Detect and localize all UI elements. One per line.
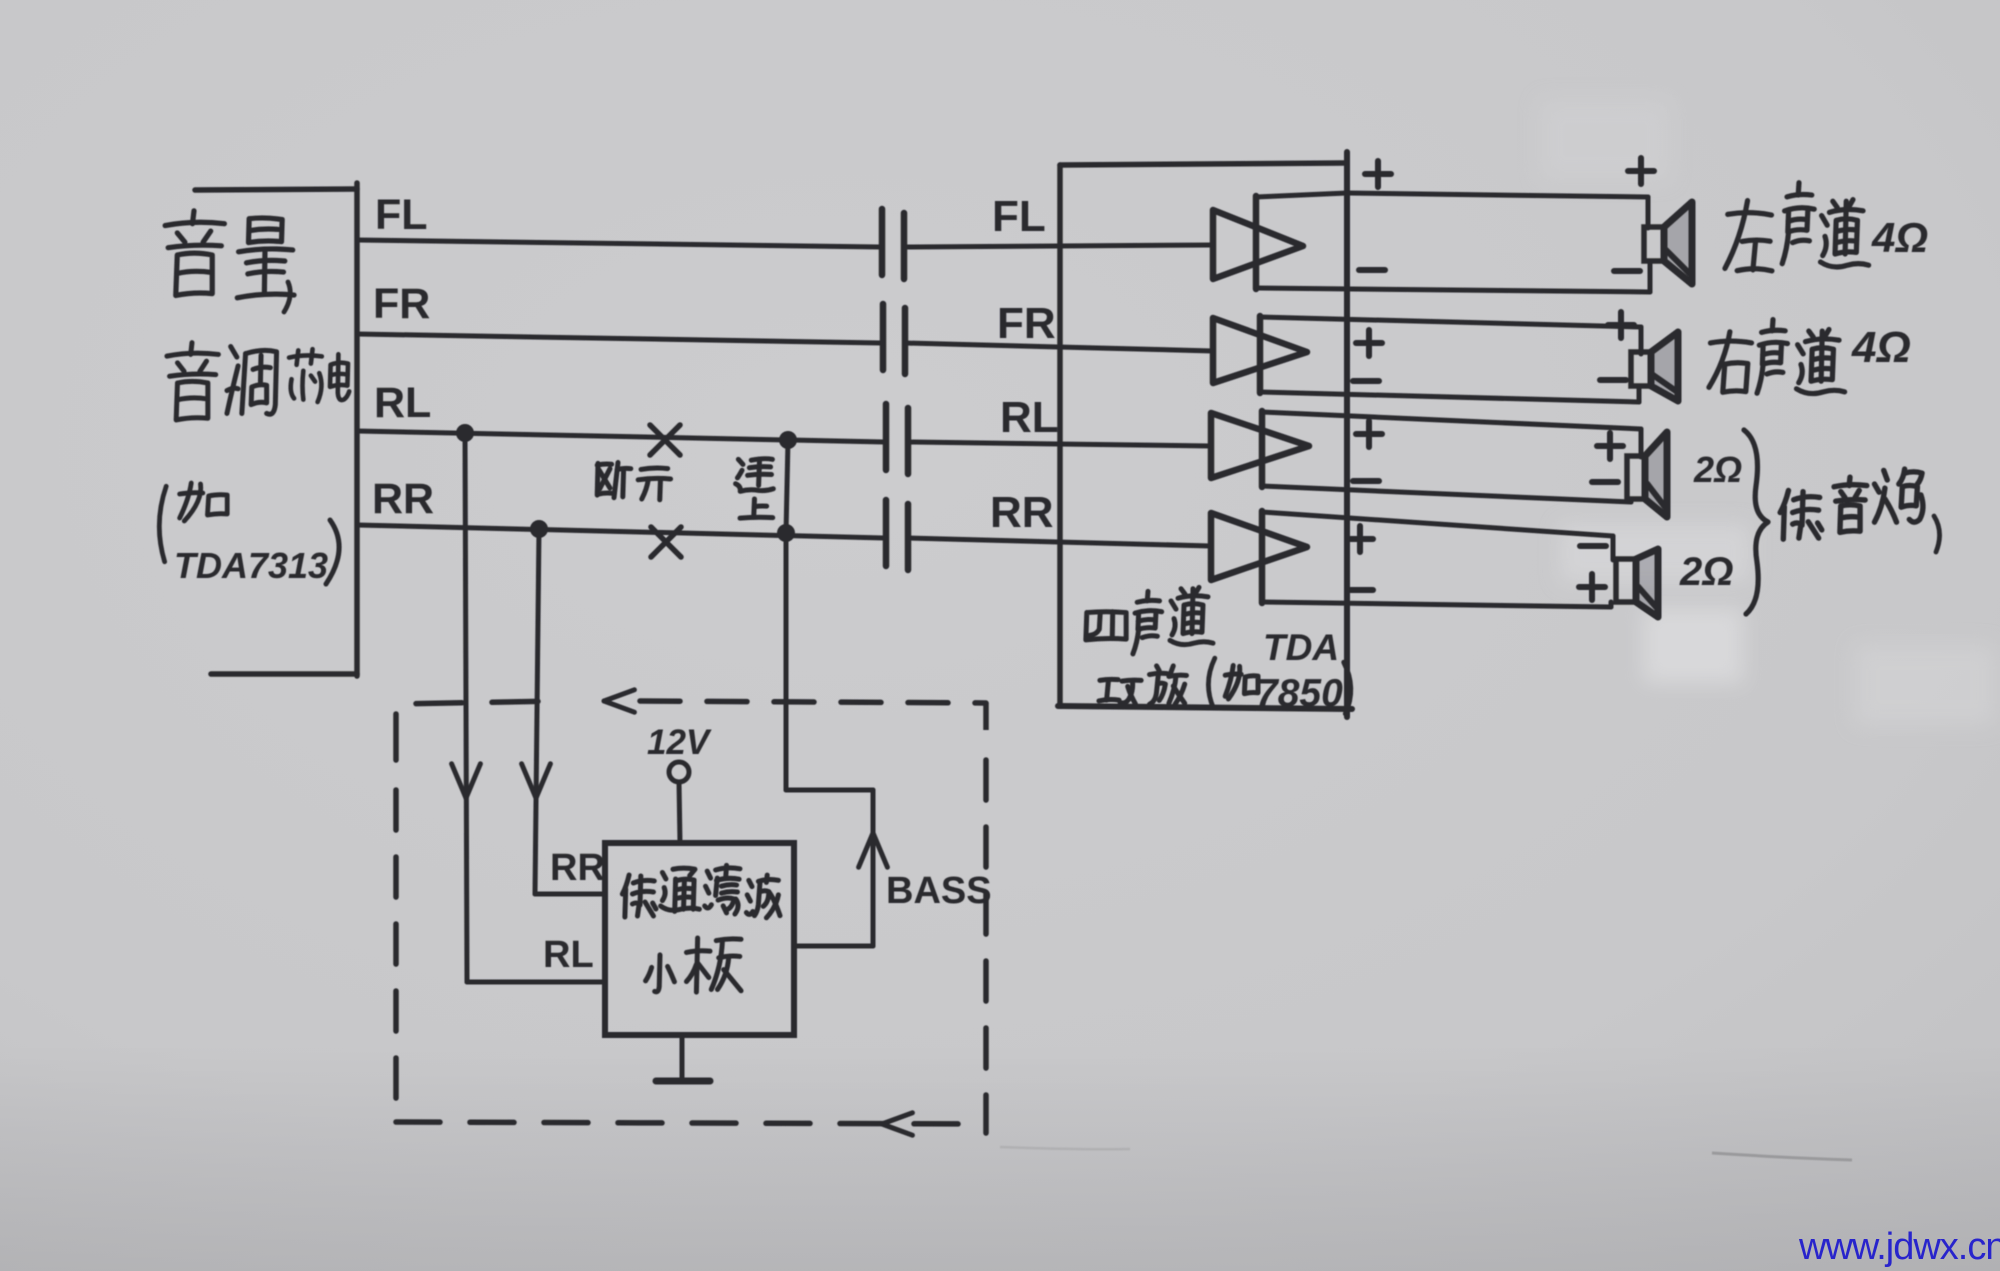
- svg-text:2Ω: 2Ω: [1693, 449, 1742, 490]
- label 四声道: [1086, 612, 1126, 640]
- svg-text:4Ω: 4Ω: [1871, 214, 1928, 261]
- X mark 断开 on RR: [651, 527, 681, 557]
- label 右声道 4Ω: [1709, 331, 1752, 393]
- low-pass filter board box: [605, 843, 794, 1035]
- dashed enclosure of subwoofer filter module: [396, 701, 560, 760]
- label: 音量, (volume): [165, 211, 224, 296]
- label 断开 (disconnect): [597, 463, 631, 498]
- wire: link between RL and RR reconnect nodes: [786, 440, 788, 533]
- coupling capacitor FL: [879, 209, 886, 275]
- op-amp U1D (RR): [1211, 513, 1307, 580]
- svg-text:RR: RR: [990, 488, 1054, 537]
- amp output bus line: [1344, 152, 1350, 717]
- svg-text:RL: RL: [543, 934, 594, 976]
- node: RR junction to filter: [530, 520, 548, 538]
- coupling capacitor RR: [883, 500, 890, 566]
- wire: horizontal bass feed: [786, 788, 873, 793]
- output bar: [1257, 316, 1264, 393]
- node: RL reconnect point: [779, 431, 797, 449]
- speaker: subwoofer half 2 ohm (reversed): [1616, 559, 1636, 602]
- svg-text:FR: FR: [373, 280, 430, 328]
- wire U1A - output: [1256, 288, 1650, 292]
- wire FR (cap to amp): [905, 343, 1213, 351]
- ground: [680, 1035, 685, 1081]
- 12V supply terminal: [669, 762, 689, 782]
- wire U1C + output: [1262, 412, 1641, 429]
- wire RR (cap to amp): [908, 538, 1211, 546]
- op-amp U1C (RL): [1211, 413, 1309, 478]
- node: RR reconnect point: [777, 524, 795, 542]
- 4-channel amp box (e.g. TDA7850): [1057, 165, 1063, 706]
- label: 音调芯片 (tone chip): [167, 343, 218, 420]
- wire: RR branch down to filter: [535, 529, 539, 894]
- speaker: right channel 4 ohm: [1631, 352, 1651, 386]
- svg-text:www.jdwx.cn: www.jdwx.cn: [1798, 1226, 2000, 1268]
- wire: down from RR node to bass feed: [784, 533, 789, 790]
- wire RL (cap to amp): [908, 442, 1211, 446]
- op-amp U1B (FR): [1213, 318, 1307, 383]
- speaker: left channel 4 ohm: [1644, 227, 1664, 261]
- output bar: [1253, 196, 1260, 289]
- svg-text:FR: FR: [997, 299, 1056, 348]
- wire U1A + output: [1256, 193, 1347, 197]
- svg-text:2Ω: 2Ω: [1679, 550, 1733, 594]
- svg-text:12V: 12V: [647, 723, 712, 762]
- wire: RL branch down to filter: [465, 433, 467, 982]
- wire RR (tone chip to cap): [357, 525, 884, 538]
- wire U1B + output: [1260, 317, 1641, 327]
- wire: BASS riser with up arrow: [871, 790, 876, 946]
- svg-text:FL: FL: [992, 192, 1046, 241]
- arrow on bottom dashed line: [882, 1113, 912, 1124]
- label: (如 TDA7313): [159, 486, 166, 561]
- label 小板: [646, 955, 675, 992]
- svg-text:RR: RR: [550, 847, 605, 889]
- polarity signs at amp outputs: [1365, 171, 1391, 177]
- svg-text:TDA7313: TDA7313: [174, 545, 328, 586]
- speaker: subwoofer half 2 ohm: [1627, 456, 1645, 499]
- wire FL (cap to amp): [904, 245, 1213, 247]
- wire FR (tone chip to cap): [357, 334, 881, 343]
- label 功放: [1099, 679, 1141, 704]
- X mark 断开 on RL: [650, 425, 680, 455]
- label 低通滤波: [622, 875, 656, 917]
- polarity signs at speakers: [1628, 168, 1654, 174]
- svg-text:RL: RL: [1000, 393, 1059, 442]
- label (如 TDA 7850): [1208, 658, 1214, 708]
- label 左声道 4Ω: [1725, 200, 1776, 273]
- coupling capacitor FR: [880, 304, 887, 370]
- coupling capacitor RL: [883, 404, 890, 470]
- svg-text:BASS: BASS: [886, 870, 992, 912]
- node: RL junction to filter: [456, 424, 474, 442]
- output bar: [1259, 411, 1266, 487]
- wire U1C - output: [1262, 486, 1631, 502]
- wire FL (tone chip to cap): [357, 240, 880, 247]
- white patch near subwoofer speakers: [1560, 524, 1750, 582]
- wire U1D - output: [1262, 602, 1611, 607]
- output bar: [1259, 511, 1266, 603]
- brace for subwoofer pair: [1744, 430, 1768, 614]
- svg-text:4Ω: 4Ω: [1851, 323, 1911, 372]
- label 低音炮 (subwoofer): [1780, 490, 1822, 539]
- svg-text:7850: 7850: [1256, 672, 1343, 715]
- label 连上 (connect): [736, 459, 774, 492]
- op-amp U1A (FL): [1213, 210, 1303, 279]
- svg-text:RL: RL: [374, 379, 431, 427]
- wire U1B - output: [1260, 392, 1639, 402]
- wire U1D + output: [1262, 512, 1613, 536]
- wire RL (tone chip to cap): [357, 431, 884, 442]
- svg-text:TDA: TDA: [1263, 627, 1339, 668]
- svg-text:RR: RR: [372, 475, 434, 523]
- wire: BASS into filter box: [795, 944, 873, 949]
- arrow on top dashed line: [604, 690, 634, 701]
- tone chip box (volume/tone chip e.g. TDA7313): [195, 189, 357, 190]
- svg-text:FL: FL: [375, 191, 428, 239]
- faint pencil mark: [1712, 1153, 1852, 1160]
